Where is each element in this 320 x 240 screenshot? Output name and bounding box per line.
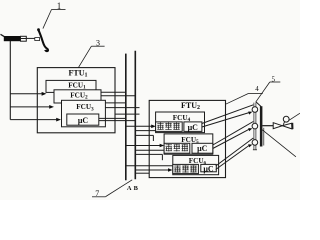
valve actuator stem: [283, 122, 284, 125]
svg-text:5: 5: [272, 76, 276, 84]
wire uC6 to sensor3 arrow: [216, 146, 249, 170]
wire branch to FCU2: [10, 106, 51, 108]
label 7 leader: [106, 180, 133, 197]
label 3 underline: [91, 45, 104, 47]
arrowhead into FCU3: [56, 118, 61, 122]
label 5 leader: [256, 82, 270, 102]
wire FCU2 to bus A: [101, 91, 126, 93]
FCU5 box: [164, 134, 213, 154]
wire pipe to valve: [262, 125, 273, 127]
microcontroller uC box in FCU3: [67, 114, 99, 125]
sensor stem between S2 S3: [254, 129, 256, 140]
uC4 box: [184, 122, 202, 131]
wire bus B to voter5 lower: [135, 149, 163, 151]
label 4 leader: [225, 93, 248, 104]
wire uC to bus B: [99, 120, 136, 122]
wire uC to bus A: [99, 117, 126, 119]
pipe top wedge: [256, 102, 261, 107]
svg-text:4: 4: [255, 85, 259, 93]
wire drop into FCU6: [161, 154, 163, 160]
wire branch to FCU1: [10, 93, 44, 95]
arrowhead into voter5: [160, 144, 165, 148]
svg-text:7: 7: [95, 189, 99, 198]
label 3 leader: [78, 46, 91, 67]
label 1 underline: [52, 9, 66, 11]
wire FCU3 to bus A: [105, 102, 125, 104]
breaker lever knob: [37, 28, 40, 31]
arrowhead into FCU1: [42, 92, 47, 96]
voter4 box: [156, 122, 183, 131]
pipe bar: [260, 106, 263, 146]
pipe right edge: [263, 128, 265, 146]
FCU6 box: [173, 155, 219, 174]
valve actuator circle: [283, 116, 289, 122]
circuit breaker CB body: [4, 36, 21, 41]
breaker striped section: [21, 36, 27, 41]
voter4 text 表决器 pseudo-glyphs: [157, 123, 179, 130]
voter5 text: [166, 144, 188, 151]
wire bus B under FCU4: [135, 134, 153, 136]
valve V1 end bar: [292, 123, 294, 129]
FTU2 box: [149, 100, 225, 177]
sensor stem foot: [253, 149, 257, 151]
wire uC5 to sensor2 arrow: [213, 129, 249, 148]
wire FTU1 edge stub: [115, 113, 140, 115]
sensor S1 circle: [252, 107, 258, 113]
voter5 box: [164, 143, 190, 153]
arrowhead into FCU2: [49, 105, 54, 109]
FCU2 box: [54, 90, 101, 103]
arrowhead into sensor2: [248, 128, 252, 131]
voter6 text: [174, 165, 196, 172]
uC5 box: [192, 143, 213, 153]
wire bus A to voter5: [126, 145, 162, 147]
svg-text:μC: μC: [203, 165, 214, 174]
bus B: [134, 51, 136, 180]
FCU3 box: [62, 100, 106, 127]
wire drop into FCU5: [152, 135, 154, 141]
circuit breaker CB (element 1) feed tick: [1, 34, 5, 36]
svg-text:3: 3: [96, 39, 100, 48]
breaker lever arm: [38, 30, 48, 51]
wire bus B to FTU2 bottom left: [135, 172, 149, 174]
wire bus B to voter4 lower: [135, 130, 155, 132]
wire junction lead down right: [262, 129, 296, 157]
uC6 box: [201, 164, 217, 171]
wire branch to FCU3: [10, 119, 58, 121]
sensor stem below S3: [254, 145, 256, 149]
wire bus B to voter6 lower: [135, 169, 170, 171]
wire bus A to voter6: [126, 165, 173, 167]
label 7 underline: [92, 196, 106, 198]
svg-text:A: A: [127, 185, 132, 192]
wire uC5 to sensor2 stem: [213, 122, 254, 146]
breaker hinge block: [35, 38, 40, 41]
wire uC4 to sensor1 stem: [202, 105, 253, 124]
valve V1 left triangle: [273, 123, 282, 129]
bus A: [125, 54, 127, 181]
wire bus B to FCU5: [135, 153, 162, 155]
valve V1 right triangle: [282, 123, 292, 129]
svg-text:1: 1: [57, 1, 62, 11]
sensor stem between S1 S2: [254, 112, 256, 123]
svg-text:μC: μC: [78, 116, 89, 125]
FTU1 box: [37, 68, 115, 133]
sensor S2 circle: [252, 123, 258, 129]
arrowhead into voter4: [151, 125, 156, 129]
FCU4 box: [156, 112, 205, 133]
breaker striped section midlines: [21, 38, 27, 40]
wire uC6 to sensor3 stem: [216, 138, 254, 166]
svg-text:μC: μC: [188, 123, 199, 132]
FCU1 box: [46, 80, 96, 92]
arrowhead into voter6: [168, 168, 173, 172]
svg-text:B: B: [134, 185, 139, 192]
sensor S3 circle: [252, 140, 258, 146]
wire actuator lead: [289, 113, 300, 120]
wire FCU2 to bus B: [101, 95, 135, 97]
label 5 underline: [270, 81, 281, 83]
wire from breaker down: [9, 41, 11, 120]
sensor stem above sensor1: [254, 103, 256, 107]
breaker link rod: [26, 37, 35, 39]
label 1 leader: [43, 10, 52, 29]
wire bus A to voter4: [126, 125, 154, 127]
wire FCU3 to FTU2: [105, 107, 139, 109]
arrowhead into sensor1: [248, 112, 252, 115]
arrowhead into sensor3: [248, 144, 252, 147]
wire uC4 to sensor1 arrow: [202, 113, 249, 127]
label 4 underline: [249, 92, 263, 94]
svg-text:μC: μC: [197, 144, 208, 153]
voter6 box: [173, 164, 199, 173]
